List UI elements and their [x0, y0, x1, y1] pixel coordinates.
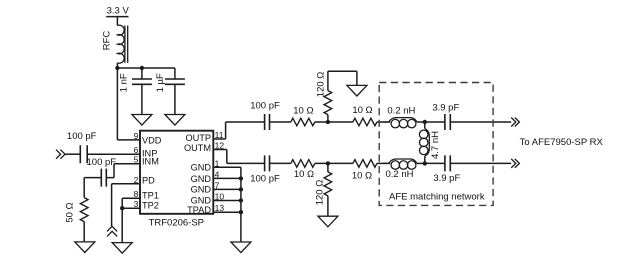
svg-text:100 pF: 100 pF: [250, 173, 280, 184]
node F junction: [423, 161, 427, 165]
capacitor C 3.9 pF top: [425, 114, 451, 130]
wire GND pin 1: [213, 166, 241, 168]
svg-text:TRF0206-SP: TRF0206-SP: [149, 217, 204, 228]
capacitor C INM 100 pF: [101, 169, 106, 187]
node C junction: [326, 120, 330, 124]
svg-text:4: 4: [215, 169, 220, 179]
wire to node F: [417, 162, 425, 164]
wire node A to VDD pin 9: [117, 68, 140, 140]
node TP junction: [120, 206, 124, 210]
capacitor 1 nF: [132, 68, 152, 115]
op-amp U1 TRF0206-SP body: [140, 131, 213, 214]
svg-text:RFC: RFC: [102, 31, 113, 51]
svg-text:7: 7: [215, 180, 220, 190]
svg-text:8: 8: [134, 189, 139, 199]
wire 100 pF to pin 6 INP: [87, 153, 140, 155]
AFE matching network dashed box: [379, 83, 493, 206]
svg-text:3: 3: [134, 199, 139, 209]
svg-text:GND: GND: [191, 195, 212, 205]
wire pin 8 TP1: [122, 198, 140, 242]
svg-text:10 Ω: 10 Ω: [352, 105, 372, 116]
inductor L 0.2 nH bottom: [383, 159, 417, 169]
svg-text:100 pF: 100 pF: [87, 157, 117, 168]
wire 50 ohm to ground: [83, 222, 85, 242]
ground (IC GND bus): [231, 242, 251, 253]
wire to node E: [315, 162, 353, 164]
resistor R 120 ohm OUTP: [324, 71, 332, 122]
capacitor C INP 100 pF: [80, 145, 87, 163]
wire 120 ohm to ground: [328, 71, 357, 85]
input port arrow INP: [56, 150, 65, 159]
wire RFC to node A: [116, 63, 118, 68]
node GND bus junctions: [239, 176, 243, 214]
svg-text:0.2 nH: 0.2 nH: [387, 105, 415, 116]
svg-text:4.7 nH: 4.7 nH: [430, 131, 441, 159]
svg-text:OUTP: OUTP: [185, 133, 211, 143]
svg-text:100 pF: 100 pF: [67, 131, 97, 142]
wire GND pin 7: [213, 188, 241, 190]
output port arrow bottom: [511, 159, 519, 168]
svg-text:120 Ω: 120 Ω: [315, 180, 326, 206]
node 3.3V supply rail: [106, 16, 128, 18]
node A junction: [115, 66, 119, 70]
svg-text:TP1: TP1: [142, 191, 159, 201]
node D junction: [423, 120, 427, 124]
svg-text:VDD: VDD: [142, 135, 162, 145]
svg-text:10 Ω: 10 Ω: [352, 170, 372, 181]
svg-text:3.9 pF: 3.9 pF: [432, 103, 459, 114]
ground (TP1 TP2): [112, 243, 132, 254]
capacitor C 3.9 pF bottom: [425, 155, 451, 171]
capacitor C OUTM 100 pF: [265, 155, 270, 171]
svg-text:INM: INM: [142, 156, 159, 166]
svg-text:To AFE7950-SP RX: To AFE7950-SP RX: [520, 137, 604, 148]
svg-text:2: 2: [134, 175, 139, 185]
ground (120 ohm OUTM): [318, 216, 338, 227]
wire bottom output: [450, 162, 511, 164]
resistor R 10 ohm OUTM b: [353, 160, 377, 168]
capacitor C OUTP 100 pF: [265, 114, 270, 130]
svg-text:1 µF: 1 µF: [155, 73, 166, 92]
resistor R 50 ohm: [80, 198, 88, 222]
node E junction: [326, 161, 330, 165]
resistor R 10 ohm OUTP a: [291, 118, 315, 126]
svg-text:1 nF: 1 nF: [119, 73, 130, 92]
svg-text:3.9 pF: 3.9 pF: [433, 173, 460, 184]
wire input to 100 pF: [65, 153, 81, 155]
ground (1 nF): [132, 115, 152, 126]
wire GND pin 4: [213, 177, 241, 179]
resistor R 10 ohm OUTM a: [291, 160, 315, 168]
svg-text:GND: GND: [191, 174, 212, 184]
wire into matching network bottom: [377, 162, 390, 164]
svg-text:PD: PD: [142, 175, 155, 185]
svg-text:GND: GND: [191, 163, 212, 173]
svg-text:0.2 nH: 0.2 nH: [386, 169, 414, 180]
capacitor 1 uF: [165, 68, 185, 115]
inductor RFC: [117, 25, 127, 63]
wire to node C: [315, 121, 353, 123]
ground (120 ohm OUTP): [347, 85, 367, 96]
svg-text:AFE matching network: AFE matching network: [389, 191, 485, 202]
wire into matching network top: [377, 121, 390, 123]
ground (50 ohm): [75, 242, 95, 253]
output port arrow top: [511, 118, 519, 127]
wire to node D: [417, 121, 425, 123]
wire OUTM cap to R: [270, 162, 291, 164]
svg-text:120 Ω: 120 Ω: [316, 72, 327, 98]
wire pin 2 PD: [112, 184, 140, 226]
svg-text:10: 10: [215, 192, 225, 202]
svg-text:GND: GND: [191, 185, 212, 195]
svg-text:10 Ω: 10 Ω: [294, 169, 314, 180]
resistor R 120 ohm OUTM: [324, 163, 332, 216]
svg-text:50 Ω: 50 Ω: [65, 202, 76, 222]
svg-text:5: 5: [134, 155, 139, 165]
node B junction (1 nF tap): [140, 66, 144, 70]
svg-text:10 Ω: 10 Ω: [293, 106, 313, 117]
wire TPAD pin 13: [213, 211, 241, 213]
svg-text:100 pF: 100 pF: [250, 101, 280, 112]
wire GND pin 10: [213, 200, 241, 202]
inductor L 4.7 nH shunt: [419, 122, 429, 163]
svg-text:OUTM: OUTM: [184, 143, 211, 153]
svg-text:13: 13: [215, 203, 225, 213]
resistor R 10 ohm OUTP b: [353, 118, 377, 126]
wire OUTP cap to R: [270, 121, 291, 123]
wire pin 3 TP2: [122, 207, 140, 209]
svg-text:1: 1: [215, 158, 220, 168]
inductor L 0.2 nH top: [383, 118, 417, 128]
wire top output: [450, 121, 511, 123]
wire pin 12 OUTM: [213, 150, 264, 164]
svg-text:11: 11: [215, 130, 224, 140]
svg-text:3.3 V: 3.3 V: [107, 5, 130, 16]
svg-text:12: 12: [215, 141, 225, 151]
wire pin 11 OUTP: [213, 122, 264, 139]
svg-text:TP2: TP2: [142, 201, 159, 211]
wire rail to RFC: [116, 17, 118, 26]
wire node A to caps: [117, 67, 174, 69]
svg-text:TPAD: TPAD: [187, 205, 211, 215]
svg-text:6: 6: [134, 145, 139, 155]
off-page arrow PD: [107, 226, 117, 236]
wire GND bus: [240, 167, 242, 242]
wire pin 5 INM riser: [106, 164, 140, 178]
wire 100 pF to 50 ohm: [84, 178, 101, 198]
svg-text:9: 9: [134, 131, 139, 141]
ground (1 uF): [165, 115, 185, 126]
